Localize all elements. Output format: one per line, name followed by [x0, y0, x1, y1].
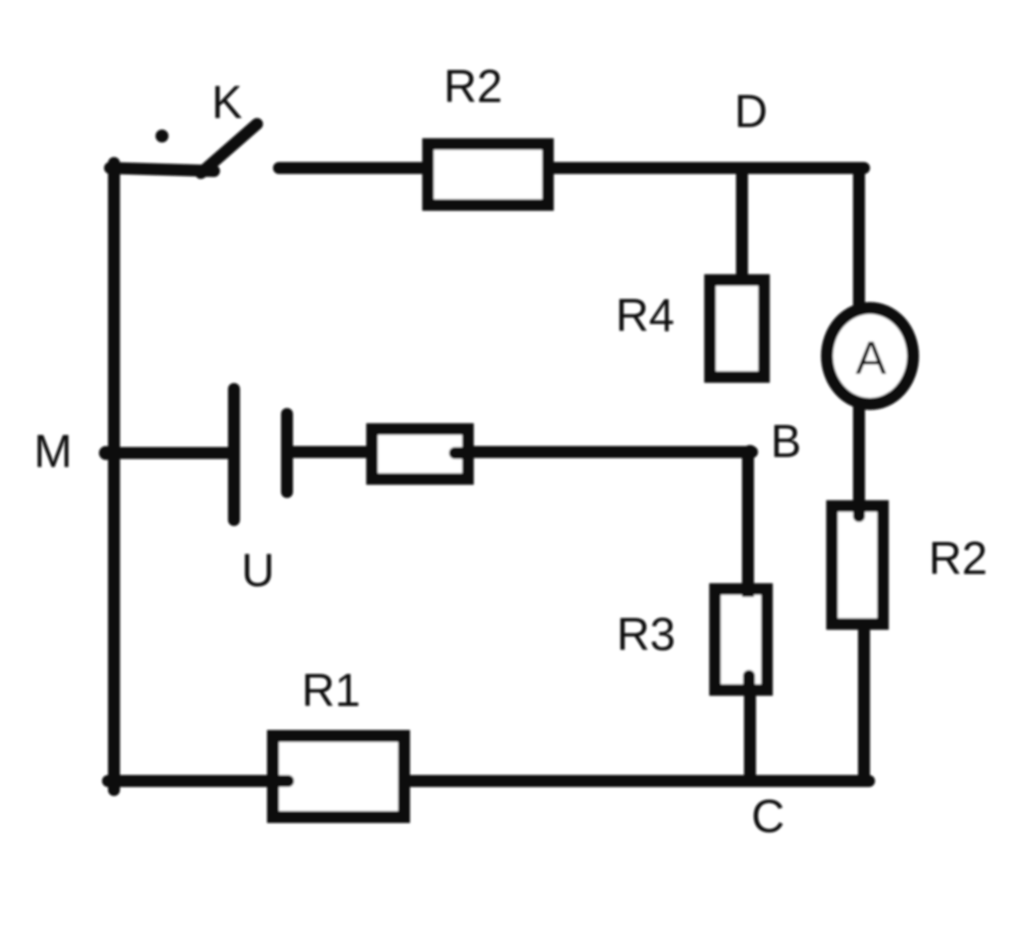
wire: node D branch down to R4	[736, 168, 748, 290]
resistor R4 body	[710, 280, 764, 377]
resistor R3 top stub	[742, 589, 754, 597]
resistor R2 (top) body	[428, 144, 548, 205]
svg-text:R1: R1	[302, 664, 361, 716]
resistor R1 body	[273, 736, 404, 817]
svg-text:A: A	[856, 332, 887, 384]
resistor R2 (right) top stub	[853, 503, 865, 516]
resistor R3 bottom stub	[743, 676, 755, 690]
wire: R2 (right) down to bottom-right corner	[858, 625, 870, 786]
wire: left vertical M rail	[108, 163, 120, 790]
wire: top-left horizontal to switch pivot	[110, 168, 214, 171]
wire: top-right corner down to ammeter	[853, 163, 865, 315]
svg-text:R3: R3	[617, 608, 676, 660]
svg-text:R4: R4	[616, 289, 675, 341]
wire: R3 down to node C	[744, 690, 756, 781]
resistor R2 (right) body	[832, 506, 883, 624]
svg-text:U: U	[241, 544, 274, 596]
wire: node B down to R3	[742, 452, 754, 595]
battery series resistor right stub	[455, 447, 467, 459]
battery U short plate	[281, 414, 293, 492]
svg-text:C: C	[751, 790, 784, 842]
svg-text:D: D	[734, 85, 767, 137]
wire: top horizontal from switch to top-right corner	[279, 162, 864, 174]
ammeter A circle	[827, 308, 913, 404]
svg-text:M: M	[34, 425, 72, 477]
resistor R1 left wire stub	[276, 775, 288, 787]
battery U long plate	[228, 389, 240, 520]
wire: M horizontal to battery	[105, 447, 230, 459]
wire: battery to node B	[291, 446, 752, 458]
svg-text:R2: R2	[929, 532, 988, 584]
switch K blade	[201, 124, 257, 173]
svg-text:K: K	[212, 76, 243, 128]
svg-text:B: B	[771, 415, 802, 467]
wire: ammeter to R2 (right)	[853, 395, 865, 505]
switch K contact dot	[156, 130, 169, 143]
resistor R3 body	[715, 589, 767, 690]
node B junction dot	[743, 445, 757, 459]
node M dot	[99, 446, 113, 460]
wire: bottom horizontal rail	[108, 775, 869, 787]
battery series resistor body	[372, 429, 468, 479]
svg-text:R2: R2	[444, 60, 503, 112]
